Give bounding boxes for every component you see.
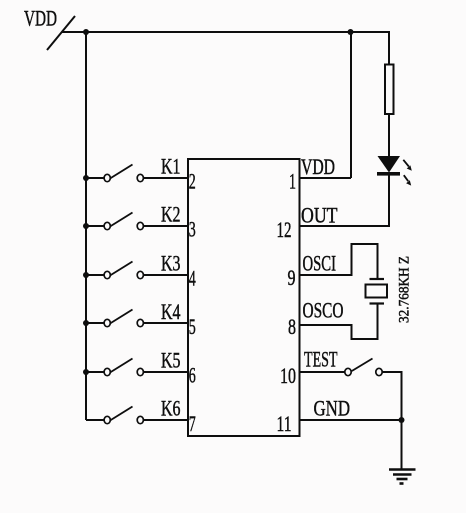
svg-text:K4: K4 xyxy=(161,299,181,324)
wire OUT pin 12 xyxy=(299,225,390,227)
wire OSCI pin 9 xyxy=(299,244,378,279)
wire LED cathode to OUT rail xyxy=(388,176,390,228)
svg-text:12: 12 xyxy=(277,217,292,242)
svg-text:10: 10 xyxy=(280,363,296,388)
junction K4 at bus xyxy=(83,320,89,326)
svg-text:32.768KH Z: 32.768KH Z xyxy=(397,256,413,323)
svg-text:OSCO: OSCO xyxy=(303,298,344,323)
wire top rail xyxy=(62,31,390,33)
wire VDD pin 1 branch horizontal xyxy=(299,177,351,179)
junction K5 at bus xyxy=(83,369,89,375)
svg-text:K3: K3 xyxy=(161,251,181,276)
wire resistor to LED xyxy=(388,114,390,157)
wire TEST pin 10 xyxy=(299,371,345,373)
svg-text:3: 3 xyxy=(189,217,196,242)
junction at left bus and top rail xyxy=(83,29,89,35)
svg-text:11: 11 xyxy=(277,411,292,436)
svg-text:TEST: TEST xyxy=(304,347,338,372)
wire resistor top lead xyxy=(388,31,390,65)
switch K1 xyxy=(86,165,188,182)
junction K3 at bus xyxy=(83,272,89,278)
switch K5 xyxy=(86,359,188,376)
junction at GND rail and ground lead xyxy=(399,417,405,423)
wire left bus xyxy=(85,32,87,420)
wire VDD pin 1 branch vertical xyxy=(350,31,352,178)
svg-text:VDD: VDD xyxy=(301,154,335,179)
svg-text:VDD: VDD xyxy=(24,6,57,31)
wire OSCO pin 8 xyxy=(299,303,378,339)
svg-text:1: 1 xyxy=(289,169,296,194)
switch K4 xyxy=(86,310,188,327)
svg-text:GND: GND xyxy=(314,396,351,421)
svg-text:4: 4 xyxy=(189,266,196,291)
wire GND pin 11 xyxy=(299,419,402,421)
svg-text:5: 5 xyxy=(189,314,196,339)
wire ground lead xyxy=(401,420,403,469)
ground xyxy=(389,470,416,484)
svg-text:K1: K1 xyxy=(161,154,181,179)
crystal Y1 32.768KHZ xyxy=(366,279,388,304)
power symbol VDD slash xyxy=(47,16,75,50)
svg-text:K2: K2 xyxy=(161,202,181,227)
junction at VDD pin branch and top rail xyxy=(348,29,354,35)
svg-text:OSCI: OSCI xyxy=(303,251,337,276)
svg-text:7: 7 xyxy=(189,411,196,436)
switch S-TEST xyxy=(345,359,382,376)
svg-text:K5: K5 xyxy=(161,348,181,373)
switch K3 xyxy=(86,262,188,279)
LED D1 xyxy=(377,156,412,186)
svg-text:2: 2 xyxy=(189,169,196,194)
junction K1 at bus xyxy=(83,175,89,181)
svg-text:OUT: OUT xyxy=(301,203,338,228)
resistor R1 xyxy=(385,65,394,115)
junction K2 at bus xyxy=(83,223,89,229)
IC U1 body xyxy=(188,159,300,436)
switch K2 xyxy=(86,213,188,230)
svg-text:6: 6 xyxy=(189,363,196,388)
svg-text:9: 9 xyxy=(288,265,296,290)
switch K6 xyxy=(86,407,188,424)
wire TEST switch to ground branch xyxy=(383,372,402,420)
svg-text:K6: K6 xyxy=(161,396,181,421)
svg-text:8: 8 xyxy=(288,314,296,339)
